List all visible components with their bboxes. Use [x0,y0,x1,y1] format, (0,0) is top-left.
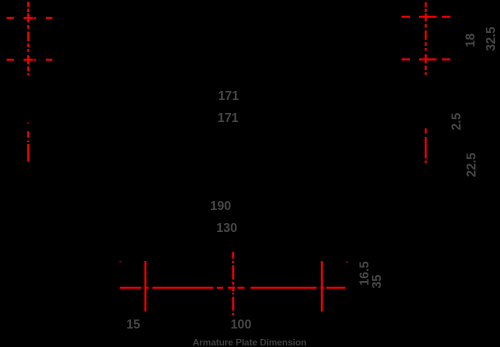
svg-text:130: 130 [216,221,237,235]
corner dot right [346,261,348,263]
centerline crosshair hole H4 right [402,30,451,75]
horizontal centerline bottom slot [120,287,346,289]
svg-text:100: 100 [231,318,252,332]
svg-text:32.5: 32.5 [484,27,498,51]
centerline crosshair hole H3 top-right [402,2,451,27]
centerline vertical right lower segment [425,128,427,163]
centerline vertical left lower segment [27,123,29,162]
centerline crosshair hole H1 top-left [7,2,53,29]
svg-text:Armature Plate Dimension: Armature Plate Dimension [193,338,307,347]
svg-text:2.5: 2.5 [449,113,463,130]
centerline crosshair hole H2 left [7,32,53,76]
svg-text:190: 190 [210,199,231,213]
svg-text:22.5: 22.5 [464,153,478,177]
vertical centerline bottom-center dashed [232,252,234,315]
vertical centerline bottom-right hole [321,261,323,311]
svg-text:35: 35 [370,275,384,289]
svg-text:171: 171 [218,89,239,103]
vertical centerline bottom-left hole [144,261,146,311]
svg-text:15: 15 [126,318,140,332]
svg-text:18: 18 [464,33,478,47]
svg-text:171: 171 [218,111,239,125]
corner dot left [119,261,121,263]
